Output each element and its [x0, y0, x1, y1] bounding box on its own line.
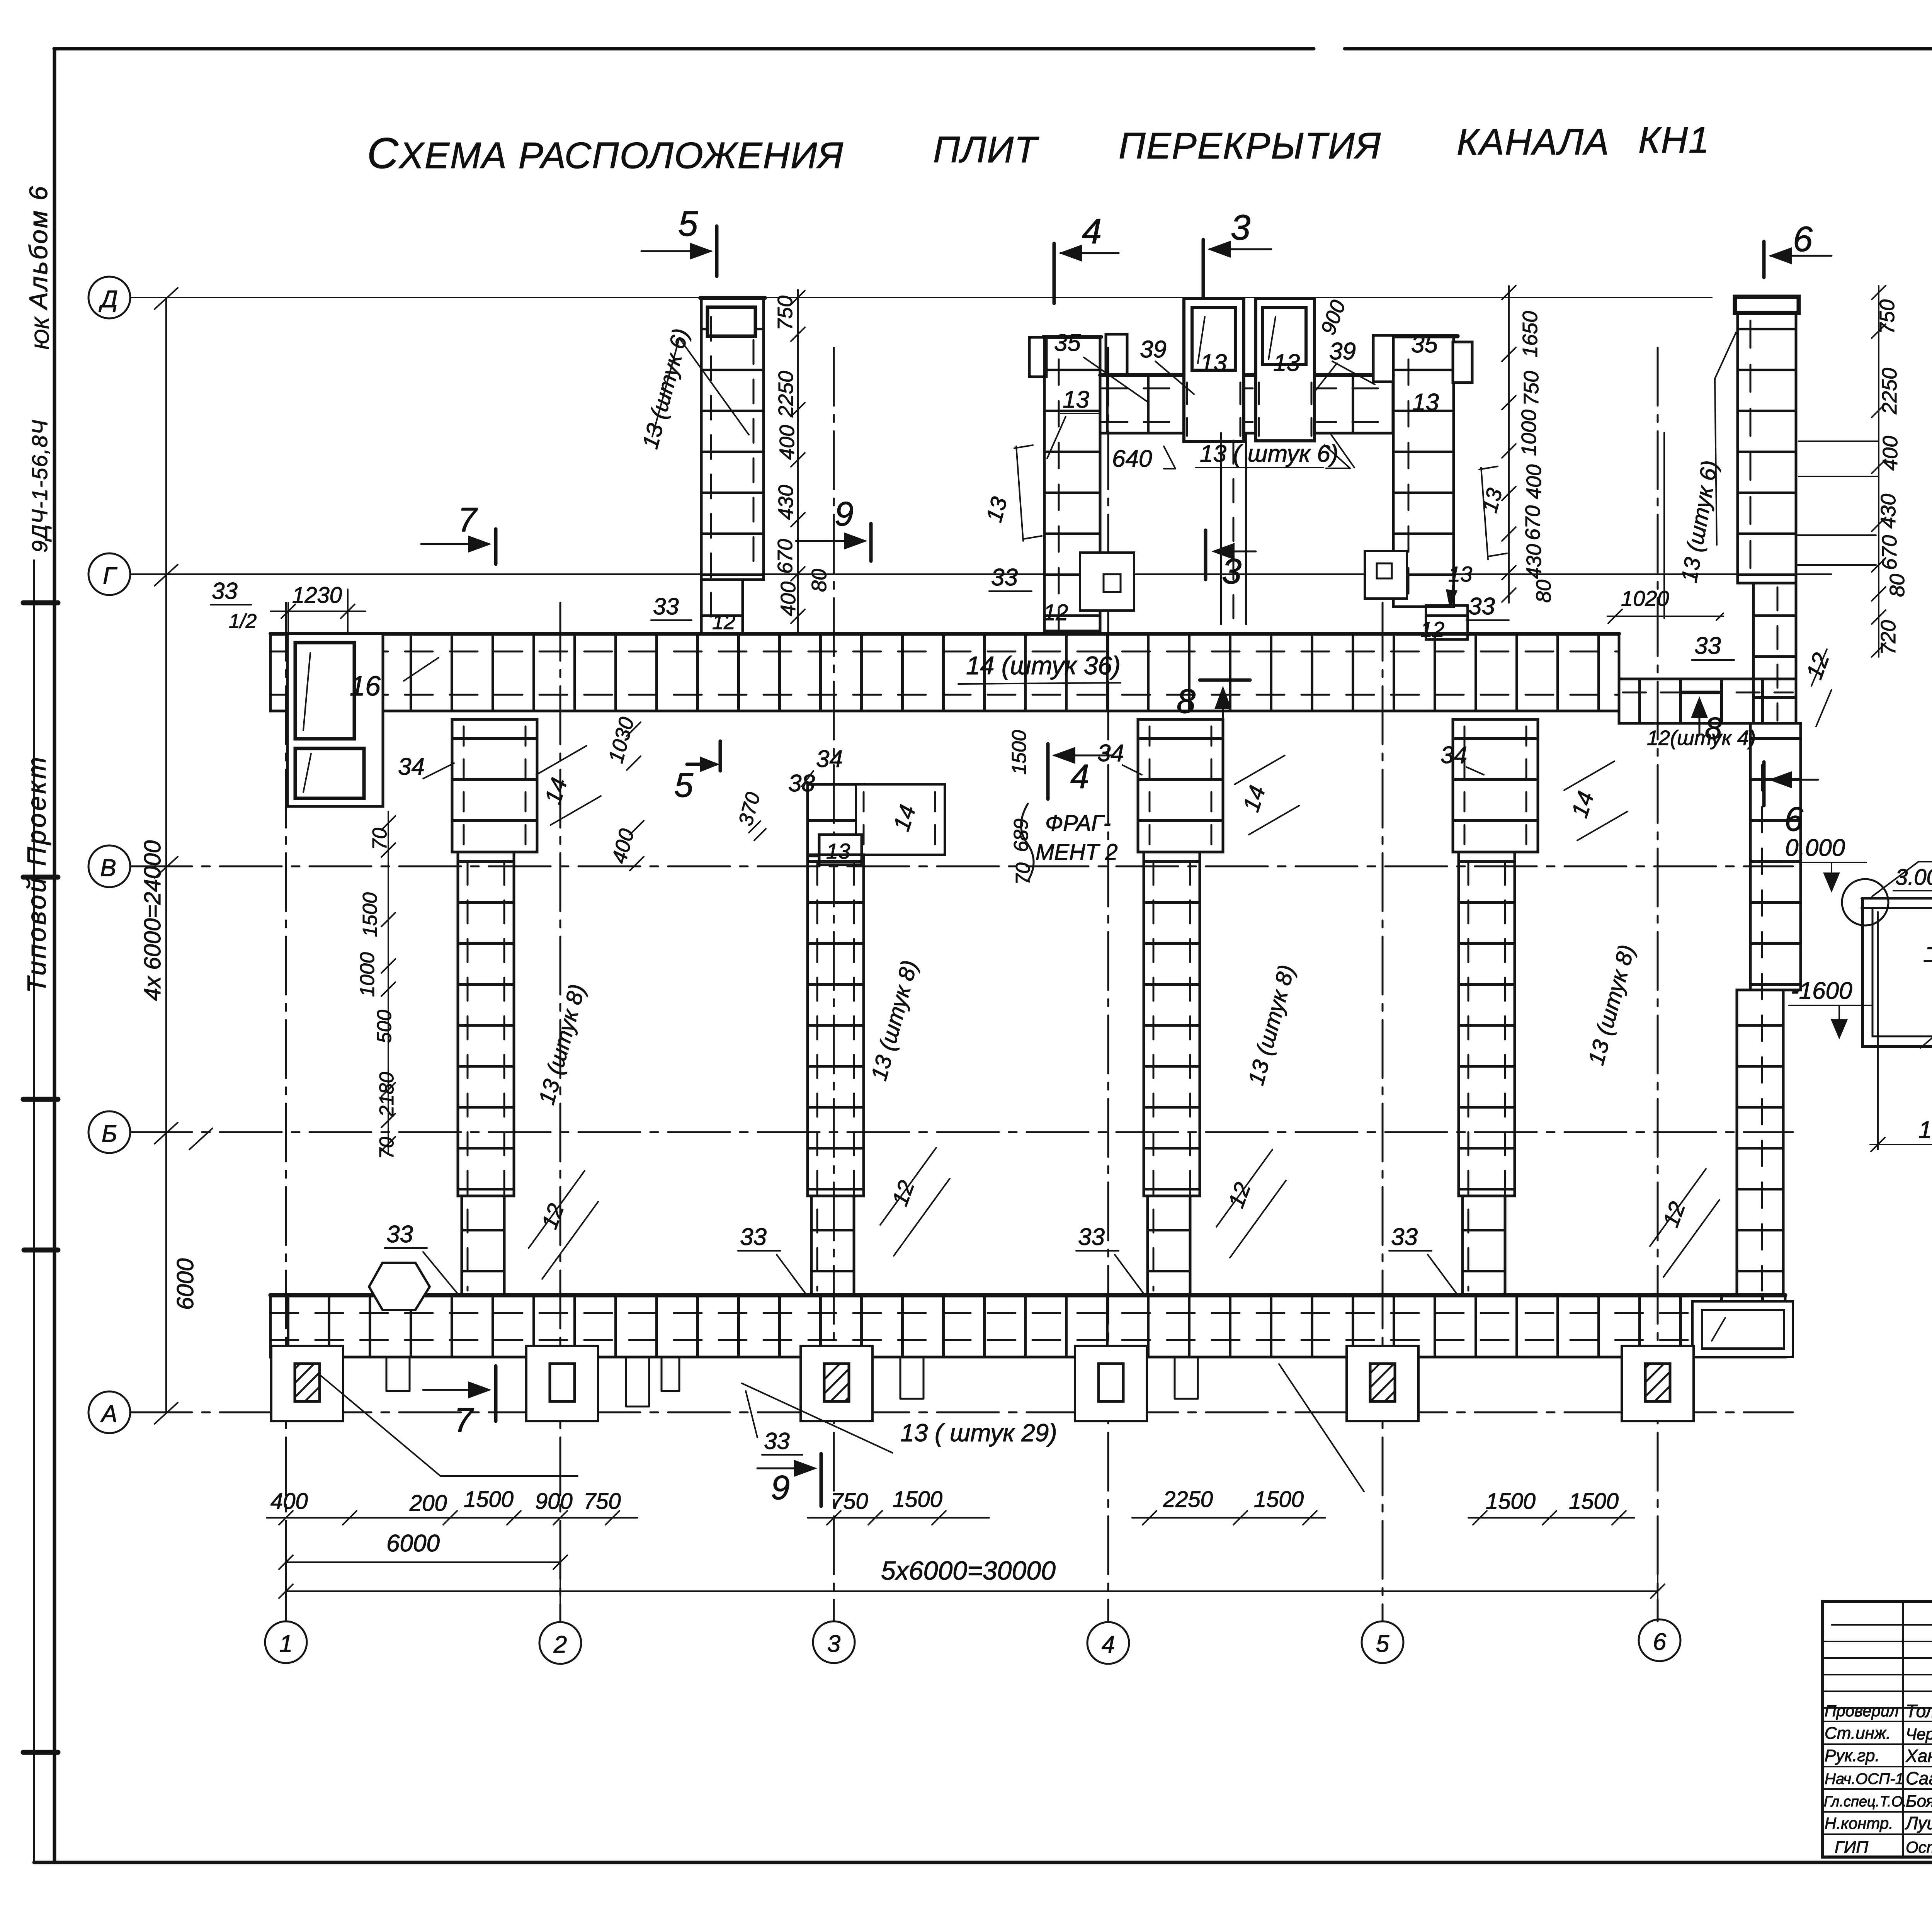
svg-text:5: 5	[1376, 1631, 1389, 1657]
svg-text:80: 80	[808, 569, 831, 592]
svg-text:4х 6000=24000: 4х 6000=24000	[139, 840, 165, 1001]
svg-text:ПЕРЕКРЫТИЯ: ПЕРЕКРЫТИЯ	[1119, 125, 1381, 167]
svg-text:400: 400	[1522, 464, 1546, 499]
svg-text:430: 430	[774, 485, 798, 520]
svg-text:33: 33	[653, 594, 679, 619]
svg-text:14: 14	[540, 775, 572, 807]
svg-text:70: 70	[369, 828, 391, 850]
svg-text:6: 6	[1653, 1629, 1667, 1655]
svg-text:13 (штук 8): 13 (штук 8)	[866, 957, 922, 1083]
svg-text:400: 400	[607, 827, 639, 866]
svg-text:5: 5	[674, 766, 694, 804]
svg-text:ФРАГ-: ФРАГ-	[1045, 811, 1111, 836]
svg-text:13: 13	[1273, 350, 1300, 376]
svg-text:33: 33	[1468, 593, 1495, 620]
svg-text:4: 4	[1070, 757, 1089, 796]
svg-text:1: 1	[279, 1631, 293, 1657]
svg-text:3.006-2 вып.1: 3.006-2 вып.1	[1895, 865, 1932, 890]
svg-text:1500: 1500	[1918, 1117, 1932, 1143]
svg-text:Н.контр.: Н.контр.	[1825, 1814, 1893, 1832]
svg-text:12: 12	[1801, 650, 1834, 683]
svg-text:3: 3	[827, 1631, 840, 1657]
svg-text:34: 34	[816, 746, 843, 772]
svg-text:1020: 1020	[1621, 586, 1669, 611]
svg-text:Г: Г	[103, 563, 117, 589]
svg-text:1500: 1500	[1254, 1487, 1304, 1512]
svg-text:33: 33	[740, 1224, 767, 1250]
svg-text:35: 35	[1411, 331, 1438, 358]
svg-text:1000: 1000	[1517, 410, 1541, 456]
svg-text:Д: Д	[99, 286, 118, 313]
svg-text:5: 5	[678, 204, 698, 243]
svg-text:35: 35	[1054, 330, 1081, 356]
svg-text:670: 670	[774, 539, 797, 574]
svg-text:33: 33	[1694, 633, 1721, 659]
svg-text:750: 750	[774, 296, 797, 330]
svg-text:33: 33	[1078, 1224, 1105, 1250]
svg-text:13: 13	[1063, 386, 1089, 413]
svg-text:1500: 1500	[1486, 1489, 1536, 1514]
svg-text:430: 430	[1522, 544, 1546, 579]
svg-text:1030: 1030	[604, 715, 639, 766]
svg-text:640: 640	[1112, 446, 1152, 472]
svg-text:ПЛИТ: ПЛИТ	[933, 129, 1039, 170]
svg-text:2: 2	[553, 1631, 567, 1658]
svg-text:80: 80	[1886, 574, 1909, 597]
svg-text:400: 400	[1879, 436, 1902, 471]
svg-text:2250: 2250	[1878, 368, 1901, 415]
svg-text:Типовой Проект: Типовой Проект	[22, 755, 51, 993]
svg-text:6000: 6000	[172, 1259, 198, 1310]
svg-text:Ст.инж.: Ст.инж.	[1825, 1724, 1891, 1743]
svg-text:Нач.ОСП-1: Нач.ОСП-1	[1825, 1770, 1904, 1787]
svg-text:13: 13	[1448, 562, 1472, 586]
svg-text:Лущенко: Лущенко	[1905, 1813, 1932, 1833]
svg-text:КН1: КН1	[1638, 119, 1710, 161]
svg-text:7: 7	[458, 500, 478, 539]
svg-text:12: 12	[537, 1201, 569, 1233]
svg-text:16: 16	[350, 671, 381, 702]
svg-text:Б: Б	[102, 1121, 117, 1147]
svg-text:80: 80	[1532, 580, 1555, 603]
svg-text:720: 720	[1877, 620, 1900, 655]
svg-text:2250: 2250	[774, 371, 798, 418]
svg-text:4: 4	[1102, 1631, 1115, 1658]
svg-text:33: 33	[764, 1428, 790, 1454]
svg-text:39: 39	[1329, 338, 1356, 365]
svg-text:Проверил: Проверил	[1825, 1702, 1899, 1720]
svg-text:12(штук 4): 12(штук 4)	[1647, 726, 1756, 750]
svg-text:400: 400	[777, 582, 800, 616]
svg-text:В: В	[100, 855, 116, 881]
svg-text:Ханин: Ханин	[1905, 1746, 1932, 1766]
svg-text:9: 9	[771, 1468, 790, 1507]
svg-text:7: 7	[454, 1401, 474, 1439]
svg-text:1500: 1500	[359, 892, 381, 937]
svg-text:1230: 1230	[292, 583, 342, 608]
svg-text:400: 400	[776, 425, 799, 460]
svg-text:6: 6	[1793, 219, 1813, 259]
svg-text:-1600: -1600	[1791, 978, 1852, 1004]
svg-text:670: 670	[1878, 535, 1901, 570]
svg-text:13: 13	[981, 494, 1012, 525]
svg-text:33: 33	[212, 578, 238, 604]
svg-text:13 (штук 8): 13 (штук 8)	[1583, 942, 1639, 1068]
svg-text:33: 33	[1391, 1224, 1418, 1250]
svg-text:200: 200	[409, 1491, 447, 1516]
svg-text:ЮК: ЮК	[31, 316, 53, 350]
svg-text:ГИП: ГИП	[1835, 1838, 1868, 1857]
svg-text:12: 12	[712, 611, 735, 634]
svg-text:13: 13	[1200, 350, 1227, 376]
svg-text:Рук.гр.: Рук.гр.	[1825, 1746, 1880, 1765]
svg-text:1500: 1500	[893, 1487, 942, 1512]
svg-text:5х6000=30000: 5х6000=30000	[881, 1556, 1056, 1585]
svg-text:1500: 1500	[1008, 730, 1031, 775]
svg-text:13: 13	[1412, 389, 1439, 416]
svg-text:1650: 1650	[1519, 311, 1542, 357]
svg-text:1000: 1000	[356, 952, 379, 997]
svg-text:12: 12	[1658, 1199, 1690, 1231]
svg-text:СХЕМА РАСПОЛОЖЕНИЯ: СХЕМА РАСПОЛОЖЕНИЯ	[367, 129, 844, 177]
svg-text:70: 70	[376, 1137, 398, 1159]
svg-text:39: 39	[1140, 336, 1167, 363]
svg-text:6: 6	[1784, 800, 1803, 838]
svg-text:13 (штук 8): 13 (штук 8)	[1243, 962, 1299, 1088]
svg-text:Осташевски: Осташевски	[1906, 1838, 1932, 1856]
svg-text:34: 34	[398, 753, 425, 780]
svg-text:КАНАЛА: КАНАЛА	[1457, 121, 1610, 163]
svg-text:750: 750	[583, 1489, 621, 1514]
svg-text:70: 70	[1012, 862, 1034, 885]
svg-text:8: 8	[1177, 682, 1196, 720]
svg-text:12: 12	[1043, 600, 1068, 625]
svg-text:Саакьянц: Саакьянц	[1906, 1768, 1932, 1788]
svg-text:Альбом 6: Альбом 6	[24, 185, 53, 311]
svg-text:500: 500	[373, 1010, 396, 1043]
svg-text:750: 750	[1876, 299, 1899, 334]
svg-text:1/2: 1/2	[229, 610, 257, 633]
svg-text:14 (штук 36): 14 (штук 36)	[966, 651, 1121, 680]
svg-text:13: 13	[826, 839, 850, 863]
svg-text:Чернявская: Чернявская	[1906, 1725, 1932, 1743]
svg-text:13 ( штук 29): 13 ( штук 29)	[900, 1419, 1057, 1447]
svg-text:9ДЧ-1-56,8Ч: 9ДЧ-1-56,8Ч	[27, 419, 52, 553]
svg-text:Боярченко: Боярченко	[1906, 1792, 1932, 1811]
svg-text:33: 33	[386, 1221, 413, 1248]
svg-text:8: 8	[1705, 711, 1722, 745]
svg-text:А: А	[100, 1401, 117, 1427]
svg-text:2250: 2250	[1163, 1487, 1213, 1512]
svg-text:14: 14	[1566, 788, 1599, 821]
svg-text:0.000: 0.000	[1785, 835, 1845, 861]
svg-text:МЕНТ 2: МЕНТ 2	[1036, 840, 1118, 865]
svg-text:6000: 6000	[386, 1530, 440, 1557]
svg-text:1500: 1500	[1569, 1489, 1619, 1514]
svg-text:900: 900	[535, 1489, 573, 1514]
svg-text:34: 34	[1097, 740, 1124, 767]
svg-text:33: 33	[991, 564, 1018, 591]
svg-text:3: 3	[1222, 552, 1242, 591]
svg-text:12: 12	[1420, 617, 1444, 641]
svg-text:34: 34	[1440, 742, 1467, 769]
svg-text:750: 750	[831, 1489, 868, 1514]
svg-text:1500: 1500	[464, 1487, 514, 1512]
svg-text:13 ( штук 6): 13 ( штук 6)	[1200, 440, 1338, 467]
svg-text:Гл.спец.Т.О.: Гл.спец.Т.О.	[1824, 1794, 1907, 1810]
svg-text:750: 750	[1520, 371, 1543, 406]
svg-text:4: 4	[1082, 212, 1102, 251]
svg-text:2180: 2180	[376, 1072, 398, 1117]
svg-text:900: 900	[1316, 297, 1350, 338]
svg-text:14: 14	[1238, 782, 1270, 815]
svg-text:Толмачева: Толмачева	[1906, 1701, 1932, 1721]
svg-text:13 (штук 8): 13 (штук 8)	[534, 981, 590, 1107]
svg-text:400: 400	[270, 1489, 308, 1514]
svg-text:430: 430	[1877, 494, 1900, 529]
svg-text:3: 3	[1231, 208, 1250, 247]
svg-text:670: 670	[1521, 505, 1544, 540]
svg-text:-0.290: -0.290	[1926, 933, 1932, 960]
svg-text:9: 9	[835, 495, 854, 533]
svg-text:689: 689	[1010, 818, 1032, 852]
